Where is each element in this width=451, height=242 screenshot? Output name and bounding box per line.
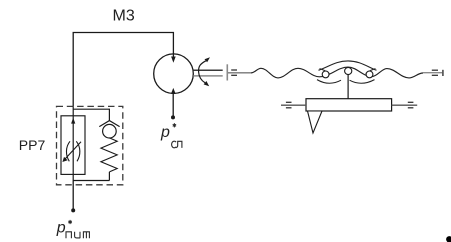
- flow line through throttle: [72, 106, 74, 180]
- lower guide arc left: [317, 80, 341, 84]
- left support = marks: [286, 101, 292, 103]
- roller right: [366, 71, 373, 78]
- tool triangle under table: [308, 111, 323, 133]
- check valve ball: [103, 124, 117, 138]
- svg-text:p: p: [56, 220, 66, 237]
- coupling = marks: [231, 69, 237, 71]
- shaft continuation line: [228, 72, 252, 74]
- asterisk pit: [69, 220, 71, 224]
- arrow into motor (flow in): [171, 57, 176, 63]
- right end = marks: [432, 69, 438, 71]
- rotation double arrow arc: [199, 61, 206, 83]
- coupling flange bar: [226, 64, 228, 80]
- arrow up into motor bottom: [171, 88, 176, 94]
- flexible shaft wavy line: [251, 67, 423, 78]
- right end support line: [423, 72, 442, 74]
- wire motor bottom port: [172, 94, 174, 117]
- table left support line: [281, 104, 306, 106]
- throttle arc left: [66, 141, 70, 161]
- output wire down: [72, 181, 74, 209]
- branch to check valve: [73, 109, 109, 121]
- throttle valve body rect: [61, 116, 85, 175]
- roller left: [322, 71, 329, 78]
- PP7 dashed enclosure: [57, 106, 123, 184]
- check valve seat: [99, 121, 119, 127]
- subscript i (u shape): [75, 232, 80, 238]
- throttle adjust arrow: [65, 142, 81, 160]
- bottom connector: [73, 180, 109, 182]
- svg-text:PP7: PP7: [19, 137, 46, 153]
- hydraulic motor M3 circle: [154, 54, 194, 94]
- motor shaft double line: [193, 69, 222, 71]
- throttle arc right: [76, 141, 80, 161]
- subscript t (m shape): [83, 232, 89, 238]
- strand over left roller: [320, 69, 330, 74]
- check valve bottom wire: [108, 172, 110, 181]
- table right support line: [392, 104, 418, 106]
- table rectangle: [306, 99, 392, 111]
- right end anchor bar: [442, 70, 444, 76]
- lower guide arc right: [350, 80, 375, 84]
- node dot p_sl: [171, 115, 175, 119]
- subscript c: [172, 141, 176, 148]
- subscript l: [176, 141, 182, 148]
- svg-text:p: p: [160, 124, 170, 141]
- upper guide arc: [319, 61, 377, 70]
- subscript p (n shape): [66, 232, 71, 238]
- asterisk sl: [173, 123, 175, 127]
- strand over right roller: [366, 69, 376, 74]
- arrow up in throttle: [71, 118, 75, 124]
- roller middle: [345, 67, 352, 74]
- spring: [101, 138, 117, 172]
- corner dot bottom right: [446, 236, 451, 242]
- svg-text:M3: M3: [113, 8, 135, 25]
- right support = marks: [408, 101, 414, 103]
- link from middle roller to table: [347, 75, 349, 99]
- wire from PP7 top to motor top: [73, 33, 173, 107]
- node dot p_pit: [71, 208, 75, 212]
